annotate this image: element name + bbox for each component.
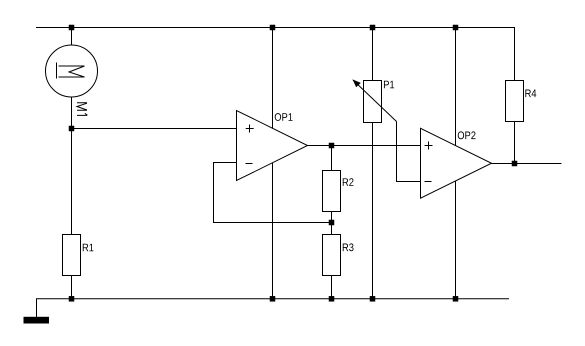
resistor R3: [323, 235, 341, 276]
wire P1 top lead: [372, 28, 374, 81]
node OP2 output / R4: [512, 161, 518, 167]
wire R1 bottom lead: [71, 276, 73, 299]
wire R4 top lead from rail corner: [514, 28, 516, 81]
resistor R4: [506, 81, 524, 122]
resistor R2: [323, 171, 341, 212]
node bottom rail / OP2 supply: [453, 296, 459, 302]
node top rail / OP1 supply: [270, 25, 276, 31]
wire P1 wiper diagonal: [353, 80, 397, 122]
motor M1: [46, 45, 98, 97]
label R2: [343, 178, 354, 186]
label OP1: [275, 113, 293, 121]
node bottom rail / R3: [329, 296, 335, 302]
node OP1 output / R2: [329, 143, 335, 149]
node bottom rail / R1: [69, 296, 75, 302]
op-amp OP1: [237, 111, 308, 181]
wire R4 bottom lead to output node: [514, 122, 516, 164]
wire motor top lead: [71, 28, 73, 46]
node top rail / motor: [69, 25, 75, 31]
label M1 (rotated): [77, 103, 87, 116]
wire R3 bottom to bottom rail: [331, 276, 333, 299]
label R1: [83, 244, 94, 252]
resistor R1: [63, 235, 81, 276]
node bottom rail / OP1 supply: [270, 296, 276, 302]
wire OP2 output: [492, 163, 562, 165]
node top rail / OP2 supply: [453, 25, 459, 31]
wire OP1 output to OP2 plus input: [308, 145, 421, 147]
label P1: [384, 81, 394, 89]
wire motor bottom lead to R1 top: [71, 97, 73, 235]
node bottom rail / P1: [370, 296, 376, 302]
wire top supply rail: [36, 27, 515, 29]
wire P1 bottom lead to bottom rail: [372, 123, 374, 299]
wire OP1 output node to R2 top: [331, 146, 333, 171]
node motor / R1 / OP1 input: [69, 126, 75, 132]
wire vertical through OP2 (x=455): [455, 28, 457, 299]
label R4: [525, 90, 536, 98]
wire OP1 feedback minus input to R2/R3 node: [214, 163, 332, 223]
label OP2: [458, 131, 476, 139]
label R3: [343, 243, 354, 251]
wire R2 bottom to R3 top: [331, 212, 333, 235]
op-amp OP2: [421, 128, 492, 198]
wire P1 wiper to OP2 minus input: [397, 122, 421, 182]
ground: [24, 317, 50, 324]
wire bottom ground rail: [36, 298, 509, 300]
potentiometer P1 arrowhead: [353, 79, 361, 87]
wire vertical through OP1 (x=272): [272, 28, 274, 299]
node top rail / P1: [370, 25, 376, 31]
wire node A to OP1 plus input: [72, 128, 237, 130]
node R2 / R3 / feedback: [329, 220, 335, 226]
wire ground stub: [36, 299, 38, 318]
potentiometer P1 body: [364, 81, 382, 123]
